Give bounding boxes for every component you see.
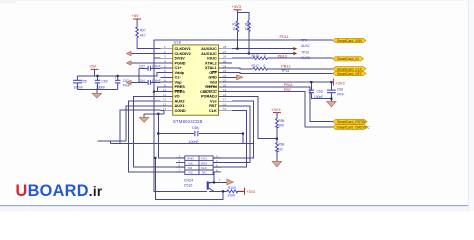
wire base run to transistor [154, 58, 207, 191]
capacitor C62 [139, 65, 161, 71]
svg-text:SmartCard_IO: SmartCard_IO [337, 57, 359, 61]
resistor R97 4K7 [136, 25, 146, 49]
node PB10 [278, 54, 287, 58]
wire CMDVCC to SmartCard_CMDVCC [232, 92, 333, 127]
wire OFF to SmartCard_OFF [232, 72, 333, 75]
svg-text:100nF: 100nF [152, 65, 161, 69]
resistor R96 [276, 142, 285, 152]
svg-text:NC: NC [202, 171, 207, 175]
svg-text:SmartCard_CLK: SmartCard_CLK [337, 67, 363, 71]
svg-text:0: 0 [264, 54, 266, 58]
ground arrow below C63 C68 [327, 102, 336, 107]
svg-text:TP9: TP9 [301, 39, 307, 43]
connector CN24 smartcard socket [176, 154, 221, 187]
svg-text:10K: 10K [278, 124, 285, 128]
svg-text:AUX1: AUX1 [175, 104, 185, 108]
svg-text:U18: U18 [174, 40, 182, 45]
node PB11 [284, 83, 293, 87]
wire GND pin to ground arrow [232, 76, 237, 78]
svg-text:GND: GND [208, 76, 217, 80]
svg-text:22: 22 [223, 74, 227, 78]
svg-text:PGND: PGND [175, 61, 186, 65]
svg-text:PB7: PB7 [284, 88, 291, 92]
power +3V3 symbol over divider [271, 107, 281, 112]
wire transistor emitter to R100 [209, 190, 245, 192]
svg-text:C62: C62 [139, 65, 145, 69]
port SmartCard_RSTIN [333, 119, 367, 124]
node PB12 [281, 65, 290, 69]
svg-text:100nF: 100nF [74, 85, 83, 89]
wire CGND big loop around [111, 110, 254, 143]
node TP9 [301, 39, 307, 43]
ground arrow at CLKDIV2 [127, 51, 131, 55]
capacitor C68 [327, 87, 344, 96]
ground arrow below chip left [139, 114, 148, 122]
svg-text:330nF: 330nF [96, 85, 105, 89]
port SmartCard_OFF [333, 71, 366, 76]
capacitor C63 [309, 89, 324, 99]
ground arrow at GND pin [237, 75, 243, 80]
svg-text:IOUC: IOUC [207, 57, 217, 61]
port SmartCard_3/5V [333, 38, 366, 43]
svg-text:CN24: CN24 [184, 178, 193, 182]
wire Vcc to connector [213, 101, 253, 158]
wire connector NC to transistor collector [209, 172, 227, 183]
power +5V symbol over R97 [132, 13, 142, 25]
op-amp U18 left pin stubs [161, 49, 173, 111]
wire capacitor bank bottom rail [77, 89, 117, 93]
svg-text:Vddp: Vddp [175, 71, 185, 75]
node PD11 [280, 35, 289, 39]
node TP10 [301, 50, 309, 54]
wire ground rail under chip [144, 111, 164, 114]
resistor R115 0 ohm [252, 54, 269, 59]
svg-text:C65: C65 [81, 80, 87, 84]
svg-text:STM8024CDB: STM8024CDB [173, 119, 203, 124]
svg-text:100K: 100K [228, 194, 237, 198]
svg-text:XTAL2: XTAL2 [205, 61, 217, 65]
svg-text:+: + [114, 76, 116, 80]
svg-text:11: 11 [163, 93, 166, 97]
testpoint arrow TP9 [293, 47, 297, 50]
svg-text:16: 16 [223, 102, 227, 106]
ground arrow below capacitor bank [92, 93, 101, 98]
wire R94 pull-up vertical [236, 32, 238, 49]
svg-text:R94: R94 [232, 22, 238, 26]
ground arrow below divider [272, 162, 281, 167]
power +3V3 at R100 [238, 188, 255, 195]
svg-text:20: 20 [223, 83, 227, 87]
svg-text:I/O: I/O [175, 95, 180, 99]
wire XTAL1 to SmartCard_CLK [232, 68, 333, 69]
svg-text:18: 18 [223, 93, 227, 97]
svg-text:PRES: PRES [175, 85, 186, 89]
capacitor C66 [189, 126, 200, 144]
svg-text:PORADJ: PORADJ [201, 95, 217, 99]
svg-text:25: 25 [223, 60, 227, 64]
svg-text:I/O: I/O [188, 166, 193, 170]
svg-text:RST: RST [201, 161, 207, 165]
op-amp U18 ST8024 smartcard interface body [173, 40, 219, 125]
svg-text:Vup: Vup [175, 80, 183, 84]
svg-text:R96: R96 [278, 143, 284, 147]
svg-text:PB10: PB10 [278, 54, 287, 58]
wire AUX1 stub loop [126, 106, 161, 141]
svg-text:21: 21 [223, 79, 227, 83]
svg-text:+5V: +5V [89, 64, 97, 69]
wire +5V rail to Vddp [77, 73, 160, 76]
wire PRES jog [157, 87, 160, 92]
svg-text:+3V3: +3V3 [271, 107, 281, 112]
svg-text:AUX2UC: AUX2UC [201, 47, 217, 51]
wire Vdd to +3V3 with caps [232, 82, 331, 101]
svg-text:C69: C69 [102, 80, 108, 84]
svg-text:R99: R99 [245, 22, 251, 26]
svg-text:R115: R115 [252, 54, 260, 58]
svg-text:UBOARD.ir: UBOARD.ir [16, 182, 103, 200]
svg-text:R95: R95 [278, 119, 284, 123]
op-amp U18 overline bars on active-low pins [175, 71, 217, 90]
svg-text:NC: NC [189, 171, 194, 175]
capacitor C67 polarized [114, 76, 130, 90]
svg-text:C66: C66 [192, 126, 199, 130]
svg-text:CLK: CLK [209, 109, 217, 113]
wire RST to connector [213, 106, 250, 163]
svg-text:+3V3: +3V3 [247, 190, 256, 194]
testpoint arrow TP10 [293, 52, 297, 55]
capacitor C65 [73, 76, 87, 90]
svg-text:10: 10 [163, 88, 167, 92]
ground arrow at transistor collector [227, 179, 233, 185]
power +3V3 symbol over pull-ups [232, 4, 242, 12]
port SmartCard_IO [333, 57, 364, 62]
wire R99 pull-up vertical [237, 13, 248, 54]
svg-text:26: 26 [223, 55, 227, 59]
svg-text:24: 24 [223, 64, 227, 68]
wire stub left y141 [98, 140, 126, 142]
svg-text:SmartCard_3/5V: SmartCard_3/5V [337, 39, 363, 43]
svg-text:Vcc: Vcc [210, 100, 217, 104]
wire I/O loop to card connector [134, 96, 185, 167]
power +5V symbol over capacitor bank [89, 64, 99, 76]
svg-text:23: 23 [223, 69, 227, 73]
svg-text:+5V: +5V [132, 13, 140, 18]
wire RSTIN to SmartCard_RSTIN [232, 87, 333, 122]
svg-text:C63: C63 [317, 89, 323, 93]
svg-text:NC: NC [278, 147, 283, 151]
svg-text:4K7: 4K7 [140, 34, 146, 38]
wire net PD11 / SmartCard_3_5V top rail [154, 40, 333, 58]
svg-text:VCC: VCC [201, 157, 208, 161]
wire C66 horizontal [158, 134, 243, 144]
svg-text:AUX1UC: AUX1UC [201, 52, 217, 56]
ground arrow at C64 [127, 80, 131, 84]
svg-text:100nF: 100nF [152, 79, 161, 83]
wire C1+ to C62 [139, 68, 161, 82]
svg-text:SmartCard_RSTIN: SmartCard_RSTIN [337, 120, 366, 124]
svg-text:C64: C64 [139, 79, 145, 83]
svg-text:12: 12 [163, 98, 167, 102]
svg-text:27: 27 [223, 50, 227, 54]
svg-text:AUX2: AUX2 [175, 100, 185, 104]
svg-text:CLKDIV2: CLKDIV2 [175, 52, 191, 56]
svg-text:PD11: PD11 [280, 35, 289, 39]
svg-text:AUX2: AUX2 [301, 44, 310, 48]
wire bottom loop [155, 158, 223, 200]
op-amp U18 right pin names [200, 47, 217, 113]
svg-text:13: 13 [163, 102, 167, 106]
svg-text:TP14: TP14 [281, 69, 289, 73]
wire PRES_bar to transistor net [154, 91, 161, 93]
wire divider vertical [276, 113, 278, 162]
port SmartCard_CLK [333, 67, 366, 72]
svg-text:C1-: C1- [175, 76, 182, 80]
svg-text:GND: GND [187, 157, 195, 161]
op-amp U18 left pin numbers [163, 45, 167, 111]
wire PORADJ to divider [232, 96, 277, 138]
svg-text:C68: C68 [337, 87, 343, 91]
capacitor C64 [139, 79, 161, 85]
svg-text:15: 15 [223, 107, 227, 111]
node PB7 [284, 88, 291, 92]
wire CLK to connector [213, 111, 246, 168]
svg-text:0: 0 [264, 64, 266, 68]
svg-text:14: 14 [163, 107, 167, 111]
resistor R100 100K [226, 186, 238, 198]
resistor R94 10K [232, 20, 239, 32]
svg-text:+3V3: +3V3 [335, 80, 345, 85]
transistor T4 [207, 178, 221, 192]
svg-text:PB11: PB11 [284, 83, 293, 87]
wire PGND to ground [131, 62, 161, 64]
svg-text:TP10: TP10 [301, 50, 309, 54]
svg-text:19: 19 [223, 88, 227, 92]
svg-text:28: 28 [223, 45, 227, 49]
wire AUX1UC testpoint row [232, 53, 294, 55]
svg-text:CGND: CGND [175, 109, 186, 113]
svg-text:XTAL1: XTAL1 [205, 66, 217, 70]
svg-text:47uF: 47uF [123, 84, 131, 88]
op-amp U18 left pin names [175, 47, 191, 113]
svg-text:47nF: 47nF [337, 93, 345, 97]
svg-text:R97: R97 [140, 29, 146, 33]
node TP14 [281, 69, 289, 73]
ground arrow at PGND [127, 61, 131, 65]
svg-text:CLK: CLK [201, 166, 208, 170]
svg-text:R117: R117 [252, 64, 260, 68]
node AUX2 [301, 44, 310, 48]
svg-text:PB12: PB12 [281, 65, 290, 69]
svg-text:1: 1 [219, 178, 221, 182]
power +3V3 symbol at Vdd rail [333, 79, 345, 86]
node AUX3 [301, 56, 310, 60]
svg-text:5V/3V: 5V/3V [175, 57, 186, 61]
wire AUX2 loop [128, 101, 184, 172]
logo UBOARD.ir [16, 182, 103, 200]
svg-text:AUX3: AUX3 [301, 56, 310, 60]
wire C66 net left vertical to connector GND [158, 114, 185, 158]
wire Vup to C64 and ground [131, 82, 161, 84]
svg-text:C516: C516 [184, 183, 193, 187]
svg-text:100nF: 100nF [314, 95, 323, 99]
svg-text:10K: 10K [232, 27, 239, 31]
svg-text:CLKDIV1: CLKDIV1 [175, 47, 191, 51]
resistor R95 10K [276, 118, 285, 128]
svg-text:Vdd: Vdd [210, 80, 218, 84]
op-amp U18 right pin stubs [219, 49, 233, 111]
svg-text:C1+: C1+ [175, 66, 183, 70]
wire IOUC to SmartCard_IO [232, 57, 333, 59]
wire CLKDIV1 to R97 [137, 48, 160, 50]
capacitor C69 [95, 76, 108, 90]
svg-text:17: 17 [223, 98, 227, 102]
resistor R117 0 ohm [252, 64, 269, 70]
svg-text:100nF: 100nF [189, 140, 200, 144]
svg-text:NC: NC [189, 161, 194, 165]
wire CLKDIV2 to ground [131, 53, 161, 55]
svg-text:SmartCard_CMDVCC: SmartCard_CMDVCC [337, 126, 371, 130]
svg-text:RST: RST [209, 104, 217, 108]
op-amp U18 right pin numbers [223, 45, 227, 111]
svg-text:R100: R100 [228, 186, 236, 190]
svg-text:SmartCard_OFF: SmartCard_OFF [337, 72, 362, 76]
svg-text:+3V3: +3V3 [232, 4, 242, 9]
port SmartCard_CMDVCC [333, 125, 370, 130]
resistor R99 10K [245, 20, 252, 32]
wire AUX2UC testpoint row [232, 48, 294, 50]
svg-text:10K: 10K [245, 27, 252, 31]
